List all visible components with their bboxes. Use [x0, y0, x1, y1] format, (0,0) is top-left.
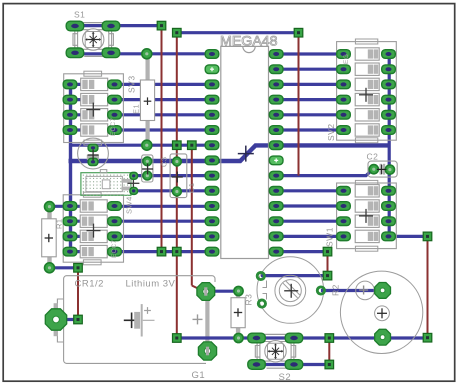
- svg-text:S1: S1: [74, 10, 85, 20]
- capacitor C2 origin cross: [377, 165, 387, 175]
- IC U1 pin 9 pad: [205, 171, 219, 180]
- IC U1 pin 14 pad: [205, 247, 219, 256]
- label C3: [160, 156, 169, 167]
- label R1: [55, 218, 64, 229]
- switch SV3 pad row 3 left: [63, 95, 77, 104]
- IC U1 pin 25 pad: [269, 95, 283, 104]
- IC U1 pin 22 pad: [269, 141, 283, 150]
- crystal Q1 origin cross: [88, 150, 99, 161]
- via D1: [323, 271, 332, 280]
- label SV4 name: [125, 196, 134, 214]
- via E1 top: [142, 49, 152, 59]
- via C1v: [157, 247, 166, 256]
- speaker LS1 center mark: [375, 306, 390, 321]
- label E1: [132, 104, 141, 114]
- label G1: [192, 370, 206, 381]
- crystal Q1 pads: [88, 144, 98, 165]
- switch SV2 pad row 3 left: [337, 95, 351, 104]
- switch SW1 pad row 12 left: [337, 232, 351, 241]
- svg-text:Lithium 3V: Lithium 3V: [126, 279, 176, 290]
- DIP switch SV3 (upper left) outline: [64, 71, 124, 145]
- speaker LS1 mount mark: [356, 281, 375, 300]
- switch SV3 pad row 3 right: [108, 95, 122, 104]
- trimmer R2 pad 2: [258, 300, 265, 307]
- capacitor C2 pads: [369, 165, 394, 175]
- svg-text:G1: G1: [192, 370, 206, 381]
- label R3: [244, 294, 254, 306]
- label R2: [331, 284, 341, 296]
- capacitor C3 pads: [143, 157, 152, 180]
- via F2: [423, 333, 432, 342]
- battery clip G1 pad top: [197, 283, 215, 301]
- svg-text:C3: C3: [160, 156, 169, 167]
- switch SV3 pad row 5 left: [63, 126, 77, 135]
- switch SV2 pad row 0 right: [382, 50, 396, 59]
- switch SV4 pad row 13 right: [108, 247, 122, 256]
- DIP switch SV2 (upper right) outline: [337, 39, 397, 143]
- resonator Q2 pads: [130, 172, 138, 194]
- IC U1 pin 3 pad: [205, 80, 219, 89]
- switch SW1 pad row 10 right: [382, 202, 396, 211]
- speaker LS1 pad bottom: [375, 329, 391, 345]
- label SV3 pin letters: [110, 117, 117, 136]
- switch SW1 pad row 9 left: [337, 187, 351, 196]
- label MEGA48: [220, 34, 278, 50]
- switch SV3 pad row 2 right: [108, 80, 122, 89]
- IC U1 pin 15 pad: [269, 247, 283, 256]
- svg-text:C1: C1: [187, 182, 196, 193]
- switch SV3 pad row 4 right: [108, 111, 122, 120]
- via B2: [188, 141, 197, 150]
- IC U1 pin 10 pad: [205, 187, 219, 196]
- IC U1 pin 7 pad: [205, 141, 219, 150]
- label CR1/2: [75, 279, 104, 290]
- DIP switch SW1 (lower right) outline: [337, 180, 397, 251]
- switch SV2 pad row 1 right: [382, 65, 396, 74]
- label C1: [187, 182, 196, 193]
- switch SV2 pad row 3 right: [382, 95, 396, 104]
- resistor E1 body: [140, 57, 154, 143]
- capacitor C3 origin cross: [142, 164, 153, 175]
- pushbutton S2 pads: [248, 333, 303, 369]
- IC U1 pin 1 pad: [205, 50, 219, 59]
- via R3 top: [234, 286, 243, 295]
- IC U1 pin 12 pad: [205, 217, 219, 226]
- switch SV4 pad row 11 left: [63, 217, 77, 226]
- IC U1 pin 18 pad: [269, 202, 283, 211]
- switch SV2 pad row 4 right: [382, 111, 396, 120]
- speaker LS1 outline: [340, 271, 422, 353]
- speaker LS1 pad top: [375, 283, 391, 299]
- IC U1 pin 24 pad: [269, 111, 283, 120]
- switch SV4 pad row 11 right: [108, 217, 122, 226]
- svg-text:SV3: SV3: [127, 75, 137, 93]
- svg-text:SW4: SW4: [125, 196, 134, 214]
- label SW1: [325, 227, 335, 247]
- switch SV2 pad row 0 left: [337, 50, 351, 59]
- svg-text:SW1: SW1: [325, 227, 335, 247]
- IC U1 pin 13 pad: [205, 232, 219, 241]
- label S2: [279, 372, 292, 383]
- battery polarity symbol: [124, 304, 155, 336]
- IC U1 origin cross: [238, 146, 254, 162]
- svg-text:EG: EG: [343, 54, 350, 64]
- battery clip G1 polarity mark: [193, 314, 203, 324]
- pushbutton S1 outline: [73, 23, 113, 57]
- IC U1 pin 21 pad (nc): [269, 156, 283, 165]
- IC U1 pin 19 pad: [269, 187, 283, 196]
- IC U1 pin 5 pad: [205, 111, 219, 120]
- switch SV4 pad row 12 left: [63, 232, 77, 241]
- label SV2 pin letters: [343, 54, 350, 64]
- switch SW1 pad row 10 left: [337, 202, 351, 211]
- via R1 bottom: [45, 263, 55, 273]
- label SV3: [127, 75, 137, 93]
- via E1 bottom: [142, 140, 152, 150]
- resistor R1 body: [42, 212, 57, 264]
- IC U1 pin 2 pad (nc): [205, 65, 219, 74]
- svg-text:ECC7: ECC7: [111, 239, 118, 258]
- battery clip G1 arm: [205, 293, 209, 351]
- battery holder CR1/2 outline: [54, 276, 215, 364]
- resonator Q2 hatched outline: [81, 170, 131, 196]
- svg-text:R2: R2: [331, 284, 341, 296]
- via E2: [325, 334, 334, 343]
- IC U1 pin 16 pad: [269, 232, 283, 241]
- capacitor C3 outline: [142, 155, 153, 182]
- via F1: [423, 232, 432, 241]
- capacitor C1 origin cross: [172, 172, 183, 183]
- via R1 top: [45, 202, 55, 212]
- IC U1 pin 4 pad: [205, 95, 219, 104]
- switch SV2 pad row 4 left: [337, 111, 351, 120]
- switch SV2 pad row 2 right: [382, 80, 396, 89]
- switch SV4 pad row 10 right: [108, 202, 122, 211]
- switch SV4 pad row 10 left: [63, 202, 77, 211]
- switch SV2 pad row 1 left: [337, 65, 351, 74]
- switch SV2 pad row 2 left: [337, 80, 351, 89]
- via D3: [74, 315, 83, 324]
- svg-text:MEGA48: MEGA48: [220, 34, 278, 50]
- top copper traces (red): [78, 26, 428, 365]
- svg-text:CR1/2: CR1/2: [75, 279, 104, 290]
- IC U1 pin 28 pad: [269, 50, 283, 59]
- via R3 bottom: [234, 333, 243, 342]
- switch SW1 pad row 12 right: [382, 232, 396, 241]
- svg-text:S2: S2: [279, 372, 292, 383]
- IC U1 pin 6 pad: [205, 126, 219, 135]
- label C2: [367, 152, 379, 162]
- via A1: [157, 21, 166, 30]
- IC U1 pin 17 pad: [269, 217, 283, 226]
- IC U1 pin 23 pad: [269, 126, 283, 135]
- IC U1 pin 11 pad: [205, 202, 219, 211]
- trimmer R2 origin cross: [284, 284, 298, 298]
- svg-text:C2: C2: [367, 152, 379, 162]
- switch SW1 pad row 11 right: [382, 217, 396, 226]
- battery pad (+): [45, 309, 66, 330]
- pushbutton S2 outline: [255, 334, 295, 368]
- switch SW1 pad row 9 right: [382, 187, 396, 196]
- label S1: [74, 10, 85, 20]
- via C2v: [173, 247, 182, 256]
- battery clip G1 pad bottom: [198, 342, 216, 360]
- switch SV3 pad row 2 left: [63, 80, 77, 89]
- switch SV2 pad row 5 left: [337, 126, 351, 135]
- svg-text:ECC7: ECC7: [110, 117, 117, 136]
- via E1v: [173, 334, 182, 343]
- switch SV3 pad row 5 right: [108, 126, 122, 135]
- switch SW1 pad row 11 left: [337, 217, 351, 226]
- switch SV2 pad row 5 right: [382, 126, 396, 135]
- via A3: [294, 28, 303, 37]
- via D2: [74, 264, 83, 273]
- crystal Q1 outline: [78, 138, 109, 169]
- bottom copper traces (blue): [50, 26, 428, 365]
- switch SV3 pad row 4 left: [63, 111, 77, 120]
- via A2: [173, 28, 182, 37]
- IC U1 pin 27 pad: [269, 65, 283, 74]
- trimmer R2 outline: [257, 257, 324, 324]
- pushbutton S1 pads: [66, 21, 120, 57]
- resonator Q2 origin cross: [127, 177, 139, 189]
- capacitor C2 outline: [368, 161, 397, 177]
- label SV4 pin letters: [111, 239, 118, 258]
- svg-text:R3: R3: [244, 294, 254, 306]
- label Lithium 3V: [126, 279, 176, 290]
- label SV2: [326, 123, 336, 141]
- trimmer R2 pad 3: [317, 287, 324, 294]
- switch SV4 pad row 13 left: [63, 247, 77, 256]
- resistor R3 body: [231, 294, 245, 335]
- via E3: [325, 360, 334, 369]
- IC U1 pin 8 pad: [205, 156, 219, 165]
- svg-text:SV2: SV2: [326, 123, 336, 141]
- switch SV4 pad row 12 right: [108, 232, 122, 241]
- svg-text:E1: E1: [132, 104, 141, 114]
- via C3v: [323, 247, 332, 256]
- trimmer R2 pad 1: [257, 272, 264, 279]
- IC U1 MEGA48 outline: [221, 46, 269, 258]
- svg-text:R1: R1: [55, 218, 64, 229]
- via B1: [173, 141, 182, 150]
- DIP switch SV4 (lower left) outline: [63, 192, 123, 265]
- IC U1 pin 20 pad: [269, 171, 283, 180]
- capacitor C1 outline: [170, 154, 187, 198]
- capacitor C1 pads: [173, 157, 182, 196]
- IC U1 pin 26 pad: [269, 80, 283, 89]
